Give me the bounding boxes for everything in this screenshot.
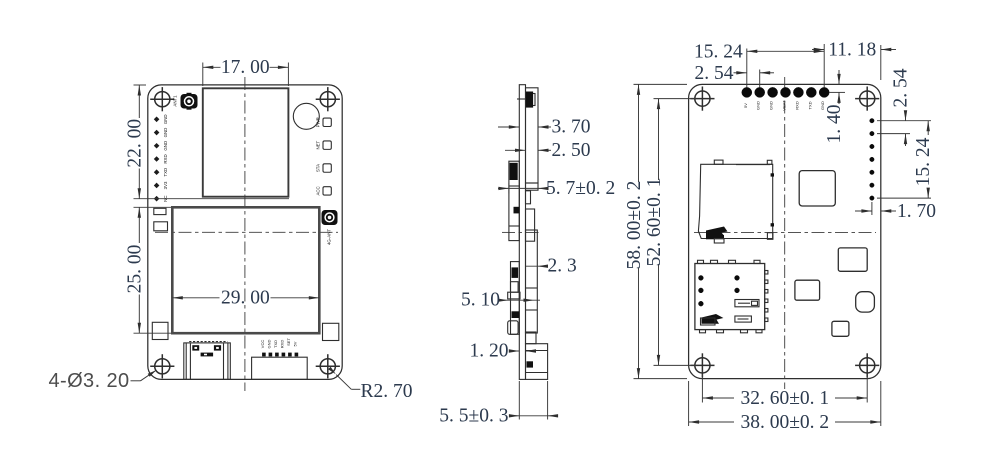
svg-text:2. 54: 2. 54 <box>891 68 912 107</box>
front view PCB board outline <box>148 85 342 380</box>
dimension 29.00 <box>172 287 319 308</box>
back pad row <box>742 87 829 110</box>
svg-text:RXD: RXD <box>794 101 799 110</box>
svg-text:2. 3: 2. 3 <box>548 256 577 277</box>
side hole hidden line top <box>517 98 528 100</box>
component rounded square 4 <box>856 292 875 312</box>
back hole top-left <box>690 87 714 111</box>
svg-text:29. 00: 29. 00 <box>221 287 270 308</box>
back right pad column <box>870 119 874 201</box>
back horizontal centerline <box>694 232 876 234</box>
svg-text:5V: 5V <box>292 341 297 346</box>
dimension 1.20 <box>470 341 537 362</box>
dimension 2.54 top <box>695 63 775 88</box>
side LCD step <box>526 191 531 204</box>
svg-text:38. 00±0. 2: 38. 00±0. 2 <box>740 412 829 433</box>
svg-text:1. 20: 1. 20 <box>470 341 509 362</box>
svg-text:SET: SET <box>286 338 291 346</box>
svg-text:15. 24: 15. 24 <box>913 137 934 186</box>
svg-text:5V: 5V <box>743 103 748 108</box>
micro SD card slot <box>698 160 774 243</box>
back hole top-right <box>855 87 879 111</box>
svg-text:NET: NET <box>316 140 321 149</box>
side view PCB body <box>519 85 525 380</box>
component square 3 <box>795 280 820 300</box>
svg-text:GND: GND <box>756 101 761 110</box>
dimension 17.00 <box>203 57 289 86</box>
dimension 58.00 <box>624 84 687 378</box>
4G-ANT ipex connector <box>322 210 338 225</box>
micro USB connector <box>184 342 231 380</box>
svg-text:2. 50: 2. 50 <box>552 140 591 161</box>
SIM card slot <box>695 260 768 333</box>
svg-text:VBAT: VBAT <box>782 100 787 111</box>
side shield lip <box>526 183 539 190</box>
side USB profile <box>526 344 548 380</box>
back vertical centerline <box>784 77 786 389</box>
svg-text:STA: STA <box>316 164 321 172</box>
svg-text:GND: GND <box>163 114 168 124</box>
LCD tab top-left a <box>154 208 166 214</box>
LCD tab bottom-left <box>152 322 168 339</box>
dimension 32.60 <box>702 374 867 409</box>
svg-text:GND: GND <box>163 128 168 138</box>
dimension 11.18 <box>812 40 896 81</box>
dimension 15.24 right <box>877 121 934 198</box>
svg-text:GND: GND <box>266 339 271 348</box>
svg-text:TXD: TXD <box>163 168 168 177</box>
svg-text:25. 00: 25. 00 <box>125 245 146 294</box>
dimension 52.60 <box>644 99 696 366</box>
speaker hole <box>293 103 319 129</box>
dimension 22.00 <box>125 85 290 199</box>
svg-text:3V3: 3V3 <box>163 181 168 189</box>
front horizontal centerline <box>155 231 338 233</box>
side horizontal centerline <box>502 231 542 233</box>
dimension 38.00 <box>689 381 881 433</box>
back hole bottom-right <box>855 353 879 377</box>
LED indicators <box>316 117 332 195</box>
dimension 1.70 <box>855 201 936 222</box>
back view PCB board outline <box>689 84 881 378</box>
svg-text:4G-ANT: 4G-ANT <box>326 229 331 245</box>
svg-text:R2. 70: R2. 70 <box>361 381 413 402</box>
LCD display module <box>172 207 319 333</box>
side pin header profile <box>526 332 537 344</box>
LCD tab top-left b <box>154 222 168 231</box>
dimension 15.24 top <box>694 41 824 87</box>
svg-text:TXD: TXD <box>807 101 812 109</box>
svg-text:3. 70: 3. 70 <box>552 117 591 138</box>
svg-text:58. 00±0. 2: 58. 00±0. 2 <box>624 181 645 270</box>
corner radius callout R2.70 <box>328 367 412 402</box>
UART pad row <box>154 114 168 201</box>
svg-text:TXD: TXD <box>273 340 278 348</box>
side ipex connector <box>529 94 535 106</box>
front vertical centerline <box>244 77 246 391</box>
dimension 5.10 <box>461 290 540 311</box>
side SIM slot profile <box>508 262 520 335</box>
svg-text:GND: GND <box>769 101 774 110</box>
dimension 1.40 <box>824 70 845 144</box>
side shield profile <box>526 88 539 183</box>
dimension 2.3 <box>526 256 577 277</box>
svg-text:17. 00: 17. 00 <box>221 57 270 78</box>
svg-text:5. 10: 5. 10 <box>461 290 500 311</box>
RF shield can <box>203 88 289 196</box>
svg-text:1. 70: 1. 70 <box>897 201 936 222</box>
svg-text:4-Ø3. 20: 4-Ø3. 20 <box>49 370 130 392</box>
pin header connector <box>252 338 308 380</box>
ANT1 ipex connector <box>181 93 198 110</box>
svg-text:GND: GND <box>163 141 168 151</box>
svg-text:5. 5±0. 3: 5. 5±0. 3 <box>439 405 508 426</box>
LCD tab bottom-right <box>323 323 339 340</box>
dimension 5.7 <box>498 178 615 199</box>
svg-text:PWR: PWR <box>316 117 321 127</box>
dimension 3.70 <box>498 117 591 138</box>
svg-text:1. 40: 1. 40 <box>824 105 845 144</box>
side SD slot profile <box>509 161 519 240</box>
hole callout 4-3.20 <box>49 370 157 392</box>
svg-text:52. 60±0. 1: 52. 60±0. 1 <box>644 178 665 267</box>
back hole bottom-left <box>690 353 714 377</box>
svg-text:15. 24: 15. 24 <box>694 41 743 62</box>
svg-text:5. 7±0. 2: 5. 7±0. 2 <box>546 178 615 199</box>
svg-text:2. 54: 2. 54 <box>695 63 734 84</box>
svg-text:VCC: VCC <box>260 340 265 349</box>
mounting hole bottom-right <box>316 354 340 378</box>
svg-text:22. 00: 22. 00 <box>125 119 146 168</box>
mounting hole top-right <box>316 87 340 111</box>
svg-text:11. 18: 11. 18 <box>828 40 876 61</box>
dimension 5.5 <box>439 381 558 426</box>
dimension 2.54 right <box>877 68 931 146</box>
mounting hole bottom-left <box>150 354 174 378</box>
svg-text:ACC: ACC <box>316 186 321 195</box>
svg-text:32. 60±0. 1: 32. 60±0. 1 <box>740 388 829 409</box>
svg-text:RXD: RXD <box>279 340 284 349</box>
dimension 2.50 <box>505 140 591 161</box>
component square 5 <box>832 321 849 336</box>
component square 2 <box>838 248 867 271</box>
svg-text:RXD: RXD <box>163 154 168 163</box>
side LCD profile <box>526 209 538 333</box>
dimension 25.00 <box>125 207 172 333</box>
component big square <box>799 171 835 206</box>
svg-text:ANT1: ANT1 <box>172 95 177 107</box>
mounting hole top-left <box>150 87 174 111</box>
